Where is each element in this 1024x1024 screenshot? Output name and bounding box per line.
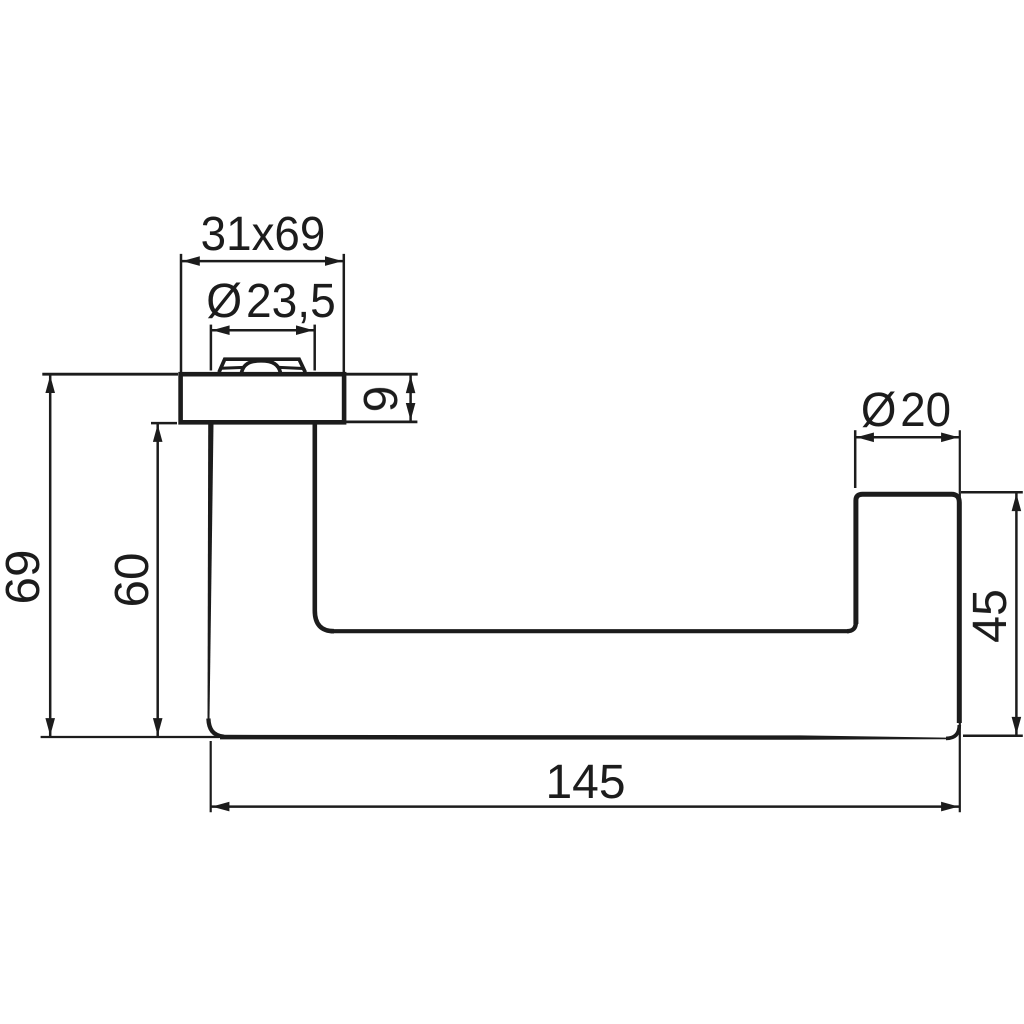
- handle neck left edge (tapered): [208, 424, 214, 719]
- dimension 60 arrow top: [153, 424, 163, 442]
- dimension 45 arrow bottom: [1012, 717, 1022, 735]
- dimension 145 arrow right: [941, 802, 959, 812]
- dimension 31x69 extension line right: [343, 254, 346, 372]
- dimension 69 arrow top: [45, 376, 55, 394]
- dimension D20 line: [855, 436, 960, 439]
- handle inner corner to grip riser: [847, 622, 856, 631]
- grip end outline: [856, 494, 959, 723]
- label 31x69: [200, 211, 325, 259]
- label 60 (rotated): [109, 553, 157, 608]
- dimension 69 extension line bottom: [41, 736, 219, 738]
- dimension 45 extension line bottom: [963, 734, 1023, 737]
- dimension 31x69 line: [181, 260, 344, 263]
- dimension 31x69 extension line left: [180, 254, 183, 372]
- bearing step line left: [221, 366, 244, 370]
- dimension 9 extension line top: [346, 373, 418, 376]
- dimension 69 arrow bottom: [45, 718, 55, 736]
- dimension 60 extension line top: [151, 422, 177, 425]
- label D20: [861, 387, 951, 435]
- dimension D20 extension line left: [854, 430, 857, 488]
- dimension D23.5 arrow right: [296, 325, 314, 335]
- label 69 (rotated): [0, 550, 48, 605]
- dimension 9 line: [409, 374, 412, 422]
- dimension 9 arrow bottom: [406, 403, 416, 421]
- bearing step line right: [279, 367, 303, 368]
- dimension 69 extension line top: [42, 373, 178, 376]
- dimension 60 arrow bottom: [153, 718, 163, 736]
- handle grip bottom bar (tapered): [220, 735, 946, 740]
- handle neck bottom corner: [208, 719, 224, 737]
- dimension 9 extension line bottom: [346, 420, 417, 423]
- dimension D20 arrow left: [856, 433, 874, 443]
- label D23,5: [206, 278, 336, 326]
- dimension 45 extension line top: [961, 491, 1023, 494]
- handle inner top edge: [332, 629, 849, 633]
- dimension 45 line: [1015, 492, 1018, 735]
- dimension 31x69 arrow right: [325, 256, 343, 266]
- dimension 69 line: [49, 374, 52, 737]
- dimension D23.5 arrow left: [212, 325, 230, 335]
- dimension 31x69 arrow left: [182, 256, 200, 266]
- dimension 145 line: [211, 805, 960, 808]
- bearing dome: [242, 361, 281, 373]
- label 45 (rotated): [967, 589, 1015, 643]
- dimension 9 arrow top: [406, 376, 416, 394]
- dimension D20 extension line right: [959, 430, 961, 812]
- dimension 145 extension line left: [210, 741, 212, 812]
- dimension D20 arrow right: [941, 433, 959, 443]
- dimension 60 line: [156, 423, 159, 737]
- dimension D23.5 line: [211, 329, 315, 332]
- grip bottom right corner: [946, 725, 959, 738]
- dimension 145 arrow left: [212, 802, 230, 812]
- dimension 45 arrow top: [1012, 494, 1022, 512]
- dimension D23.5 extension line right: [313, 325, 316, 371]
- label 9 (rotated): [358, 386, 406, 413]
- label 145: [545, 759, 625, 807]
- rose plate (square rose, side view): [181, 374, 345, 422]
- handle neck right edge with corner: [315, 424, 334, 631]
- dimension D23.5 extension line left: [210, 325, 213, 371]
- spindle bearing cap on rose: [219, 359, 305, 372]
